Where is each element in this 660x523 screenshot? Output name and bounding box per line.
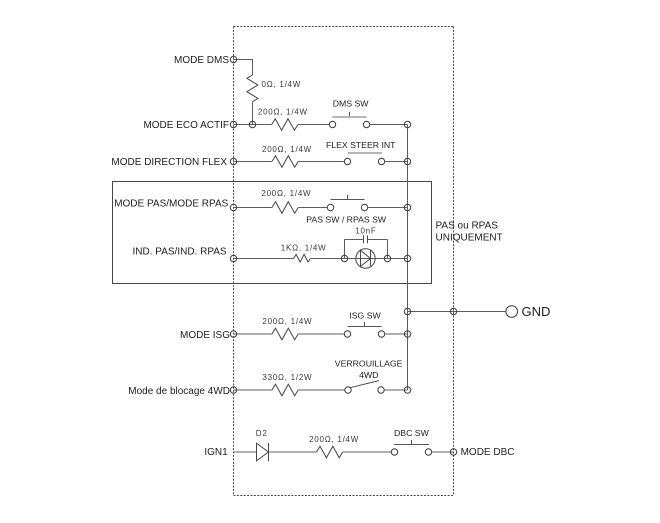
terminal MODE ECO ACTIF — [230, 121, 236, 127]
svg-text:10nF: 10nF — [355, 226, 376, 235]
svg-text:ISG SW: ISG SW — [349, 310, 381, 320]
LED indicator (diode in circle) — [341, 249, 390, 268]
svg-text:VERROUILLAGE: VERROUILLAGE — [335, 359, 403, 369]
svg-text:IND. PAS/IND. RPAS: IND. PAS/IND. RPAS — [133, 246, 227, 257]
junction row6/bus — [404, 331, 410, 337]
junction row4/bus — [404, 204, 410, 210]
svg-text:4WD: 4WD — [359, 370, 378, 380]
switch DBC SW — [391, 428, 431, 455]
wire MODE DMS to resistor — [234, 60, 253, 76]
svg-text:DMS SW: DMS SW — [333, 99, 370, 109]
svg-text:MODE PAS/MODE RPAS: MODE PAS/MODE RPAS — [114, 198, 228, 209]
wire row6 left — [234, 333, 273, 335]
wire diode to resistor — [269, 451, 317, 453]
svg-text:MODE ISG: MODE ISG — [180, 330, 230, 341]
resistor 1Kohm 1/4W — [294, 254, 311, 262]
diode D2 — [256, 429, 269, 461]
terminal MODE PAS/MODE RPAS — [230, 204, 236, 210]
svg-text:Mode de blocage 4WD: Mode de blocage 4WD — [128, 386, 230, 397]
capacitor 10nF — [345, 226, 388, 258]
svg-text:GND: GND — [522, 304, 551, 319]
resistor 200ohm 1/4W row6 — [272, 328, 298, 340]
junction row5/bus — [404, 255, 410, 261]
junction row2/bus — [404, 121, 410, 127]
svg-text:200Ω, 1/4W: 200Ω, 1/4W — [261, 189, 311, 198]
junction row7/bus — [404, 387, 410, 393]
terminal IND. PAS/IND. RPAS — [230, 255, 236, 261]
wire bus to GND — [408, 311, 506, 313]
svg-text:PAS SW / RPAS SW: PAS SW / RPAS SW — [306, 215, 387, 225]
wire row8 left — [234, 451, 257, 453]
svg-text:330Ω, 1/2W: 330Ω, 1/2W — [262, 373, 312, 382]
wire row4 left — [234, 207, 273, 209]
wire switch to bus row7 — [384, 389, 407, 391]
terminal Mode de blocage 4WD — [230, 387, 236, 393]
terminal MODE DMS — [230, 56, 236, 62]
terminal MODE DBC — [450, 449, 456, 455]
wire switch to boundary row8 — [432, 451, 454, 453]
wire resistor to switch row6 — [298, 333, 344, 335]
wire row5 left — [234, 258, 294, 260]
svg-text:MODE ECO ACTIF: MODE ECO ACTIF — [143, 120, 229, 131]
svg-text:200Ω, 1/4W: 200Ω, 1/4W — [262, 145, 312, 154]
wire resistor to switch row2 — [298, 124, 329, 126]
resistor 200ohm 1/4W row8 — [317, 446, 343, 458]
svg-text:DBC SW: DBC SW — [394, 428, 430, 438]
switch FLEX STEER INT — [326, 140, 396, 165]
svg-text:1KΩ, 1/4W: 1KΩ, 1/4W — [281, 243, 327, 252]
svg-text:200Ω, 1/4W: 200Ω, 1/4W — [262, 317, 312, 326]
svg-text:0Ω, 1/4W: 0Ω, 1/4W — [262, 80, 302, 89]
resistor 200ohm 1/4W row4 — [272, 202, 298, 214]
wire row2 left — [234, 124, 272, 126]
switch ISG SW — [344, 310, 384, 337]
svg-text:200Ω, 1/4W: 200Ω, 1/4W — [309, 435, 359, 444]
wire switch to bus row2 — [370, 124, 408, 126]
junction bus/GND — [404, 308, 410, 314]
svg-text:D2: D2 — [256, 429, 268, 438]
wire row3 left — [234, 161, 273, 163]
wire resistor to switch row3 — [298, 161, 344, 163]
wire resistor to switch row7 — [298, 389, 345, 391]
label PAS ou RPAS UNIQUEMENT — [436, 221, 503, 244]
terminal MODE ISG — [230, 331, 236, 337]
resistor 200ohm 1/4W row2 — [272, 119, 298, 131]
svg-text:MODE DBC: MODE DBC — [461, 447, 515, 458]
junction row2 / 0ohm resistor — [249, 121, 255, 127]
switch PAS SW / RPAS SW — [306, 195, 387, 225]
wire switch to bus row3 — [385, 161, 408, 163]
wire resistor to switch row4 — [298, 207, 327, 209]
resistor 200ohm 1/4W row3 — [272, 156, 298, 168]
bus wire (vertical) — [407, 125, 409, 391]
junction row3/bus — [404, 158, 410, 164]
wire row7 left — [234, 389, 273, 391]
svg-text:MODE DMS: MODE DMS — [174, 55, 229, 66]
wire resistor to switch row8 — [343, 451, 392, 453]
wire switch to bus row6 — [385, 333, 408, 335]
resistor 0ohm 1/4W (vertical) — [247, 75, 258, 102]
svg-text:MODE DIRECTION FLEX: MODE DIRECTION FLEX — [111, 157, 227, 168]
wire switch to bus row4 — [368, 207, 408, 209]
svg-text:UNIQUEMENT: UNIQUEMENT — [436, 233, 503, 244]
svg-text:PAS ou RPAS: PAS ou RPAS — [436, 221, 499, 232]
switch VERROUILLAGE 4WD (lever) — [335, 359, 403, 394]
svg-text:IGN1: IGN1 — [204, 447, 228, 458]
wire resistor to row2 junction — [252, 102, 254, 125]
svg-text:200Ω, 1/4W: 200Ω, 1/4W — [258, 108, 308, 117]
PAS ou RPAS UNIQUEMENT box — [113, 182, 432, 284]
svg-text:FLEX STEER INT: FLEX STEER INT — [326, 140, 396, 150]
switch DMS SW — [329, 99, 369, 128]
resistor 330ohm 1/2W — [272, 384, 298, 396]
wire resistor to LED — [311, 258, 408, 260]
terminal MODE DIRECTION FLEX — [230, 158, 236, 164]
terminal GND at boundary — [450, 308, 456, 314]
ground GND symbol — [506, 304, 550, 319]
dashed connector boundary box — [234, 27, 454, 496]
